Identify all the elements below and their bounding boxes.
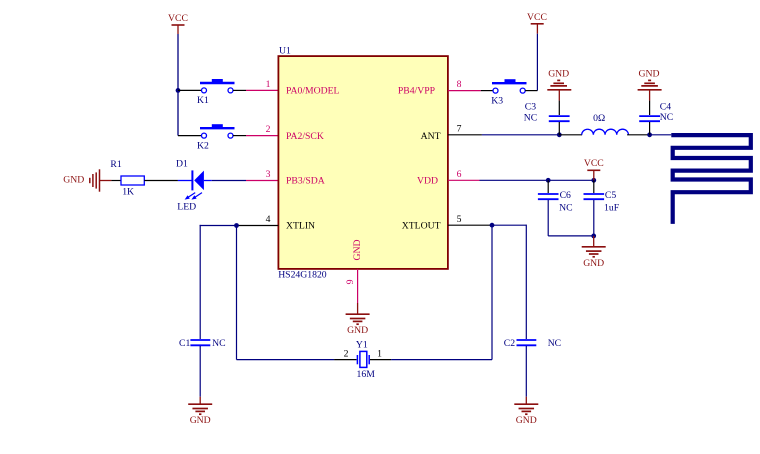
IC U1 body	[278, 46, 448, 281]
wire K3 left lead	[481, 90, 493, 92]
wire ANT net	[482, 134, 559, 136]
wire C3 to inductor	[559, 134, 582, 136]
wire C5 upper lead	[593, 180, 595, 193]
power ground GND (below C1)	[188, 404, 212, 426]
wire K2 left lead	[178, 135, 202, 137]
svg-text:5: 5	[457, 214, 462, 225]
svg-text:PA2/SCK: PA2/SCK	[286, 131, 324, 142]
wire pin3 stub	[246, 180, 278, 182]
svg-text:GND: GND	[190, 415, 211, 426]
wire pin1 stub	[246, 89, 278, 91]
pushbutton K3	[491, 79, 526, 106]
wire K3 right lead	[525, 90, 537, 92]
svg-text:K2: K2	[197, 140, 209, 151]
capacitor C4	[639, 101, 673, 123]
capacitor C2	[504, 338, 561, 349]
svg-text:GND: GND	[548, 68, 569, 79]
wire pin9 GND stub	[357, 269, 359, 303]
power ground GND (above C3)	[547, 68, 571, 90]
node junction C6	[546, 178, 551, 183]
svg-text:7: 7	[457, 124, 462, 135]
wire pin4 XTLIN	[237, 225, 279, 227]
node junction pin4/crystal	[234, 223, 239, 228]
svg-text:K1: K1	[197, 95, 209, 106]
wire C1 branch vertical	[199, 225, 201, 339]
svg-text:0Ω: 0Ω	[593, 113, 605, 124]
wire pin6 VDD stub	[448, 179, 480, 181]
svg-text:NC: NC	[559, 203, 572, 214]
capacitor C3	[524, 102, 570, 124]
svg-text:9: 9	[345, 279, 356, 284]
node junction C4/ANT	[647, 132, 652, 137]
svg-text:C6: C6	[560, 190, 571, 201]
svg-text:PA0/MODEL: PA0/MODEL	[286, 85, 340, 96]
node junction C5/C6 ground	[591, 234, 596, 239]
svg-text:1K: 1K	[122, 187, 134, 198]
power symbol VCC (top right)	[527, 12, 547, 34]
wire crystal net left vertical	[236, 226, 238, 360]
node junction C3/ANT	[557, 132, 562, 137]
wire C4 to antenna	[650, 134, 672, 136]
svg-text:2: 2	[344, 349, 349, 360]
svg-text:C2: C2	[504, 338, 515, 349]
wire Y1 left lead	[334, 359, 356, 361]
wire VDD net	[480, 179, 594, 181]
power ground GND (below C5)	[582, 247, 606, 269]
wire pin5 to C2	[492, 224, 526, 226]
wire VCC rail to K1/K2	[177, 34, 179, 136]
pushbutton K2	[197, 124, 235, 151]
svg-text:ANT: ANT	[421, 131, 441, 142]
svg-text:1: 1	[377, 349, 382, 360]
svg-text:6: 6	[457, 169, 462, 180]
svg-text:C4: C4	[660, 101, 671, 112]
wire pin5 XTLOUT	[448, 224, 492, 226]
svg-text:1uF: 1uF	[604, 203, 620, 214]
power ground GND (above C4)	[638, 68, 662, 90]
svg-text:NC: NC	[548, 338, 561, 349]
svg-text:VCC: VCC	[527, 12, 547, 23]
node junction C5/VCC	[591, 178, 596, 183]
svg-text:VCC: VCC	[168, 13, 188, 24]
capacitor C1	[179, 338, 226, 349]
node junction pin5/crystal	[490, 223, 495, 228]
wire crystal net right vertical	[491, 225, 493, 359]
svg-text:VDD: VDD	[417, 176, 438, 187]
capacitor C6	[538, 190, 573, 214]
wire GND to R1	[111, 180, 121, 182]
svg-text:XTLIN: XTLIN	[286, 221, 315, 232]
svg-text:Y1: Y1	[356, 340, 368, 351]
power symbol VCC (left)	[168, 13, 188, 34]
power ground GND (left, sideways)	[63, 169, 111, 191]
svg-text:C5: C5	[605, 190, 616, 201]
wire D1 to pin3	[212, 180, 246, 182]
wire pin7 ANT	[448, 134, 482, 136]
power symbol VCC (above C5)	[584, 158, 604, 180]
wire C2 branch vertical	[525, 225, 527, 339]
svg-text:PB4/VPP: PB4/VPP	[398, 85, 435, 96]
svg-text:8: 8	[457, 79, 462, 90]
wire K1 left lead	[178, 89, 202, 91]
wire C6 upper lead	[547, 180, 549, 193]
wire to ground stub	[593, 236, 595, 247]
svg-text:GND: GND	[347, 325, 368, 336]
wire Y1 right lead	[370, 359, 391, 361]
svg-text:3: 3	[266, 169, 271, 180]
svg-text:GND: GND	[639, 68, 660, 79]
svg-text:R1: R1	[110, 159, 121, 170]
svg-text:VCC: VCC	[584, 158, 604, 169]
svg-text:XTLOUT: XTLOUT	[402, 221, 441, 232]
wire VCC to K3	[536, 34, 538, 91]
wire K2 right lead	[233, 135, 246, 137]
pushbutton K1	[197, 79, 235, 106]
svg-text:GND: GND	[352, 240, 363, 261]
svg-text:GND: GND	[516, 415, 537, 426]
node junction VCC/K1	[176, 88, 181, 93]
wire pin8 stub	[448, 90, 481, 92]
svg-text:D1: D1	[176, 159, 188, 170]
wire inductor to C4	[627, 134, 650, 136]
crystal Y1	[344, 340, 383, 380]
wire crystal net bottom right	[391, 359, 492, 361]
svg-text:GND: GND	[63, 174, 84, 185]
svg-text:K3: K3	[491, 96, 503, 107]
wire crystal net bottom left	[237, 359, 335, 361]
inductor 0R	[582, 113, 629, 135]
svg-text:C3: C3	[525, 102, 536, 113]
svg-text:GND: GND	[583, 258, 604, 269]
wire C4 upper lead	[649, 90, 651, 101]
wire pin2 stub	[246, 135, 278, 137]
svg-text:16M: 16M	[357, 369, 376, 380]
svg-text:4: 4	[266, 214, 271, 225]
svg-text:NC: NC	[660, 112, 673, 123]
wire C1 to ground	[199, 346, 201, 397]
resistor R1	[110, 159, 144, 198]
svg-text:NC: NC	[524, 113, 537, 124]
wire C5 lower lead	[593, 200, 595, 236]
svg-text:NC: NC	[212, 338, 225, 349]
wire R1 to D1	[144, 180, 178, 182]
wire C4 lower lead	[649, 122, 651, 135]
svg-text:PB3/SDA: PB3/SDA	[286, 176, 325, 187]
wire C6 bottom to C5	[548, 235, 594, 237]
wire C3 upper lead	[558, 90, 560, 101]
wire K1 right lead	[233, 89, 246, 91]
wire C2 to ground	[525, 346, 527, 397]
svg-text:HS24G1820: HS24G1820	[278, 270, 327, 281]
LED D1	[176, 159, 212, 213]
wire C3 lower lead	[558, 122, 560, 135]
wire C6 lower lead	[547, 200, 549, 236]
svg-text:U1: U1	[279, 46, 291, 57]
svg-text:C1: C1	[179, 338, 190, 349]
capacitor C5	[584, 190, 620, 214]
antenna (meander)	[671, 135, 751, 224]
svg-text:LED: LED	[177, 202, 196, 213]
power ground GND (below C2)	[514, 404, 538, 426]
svg-text:1: 1	[266, 79, 271, 90]
svg-text:2: 2	[266, 124, 271, 135]
power ground GND (pin9)	[346, 314, 370, 336]
